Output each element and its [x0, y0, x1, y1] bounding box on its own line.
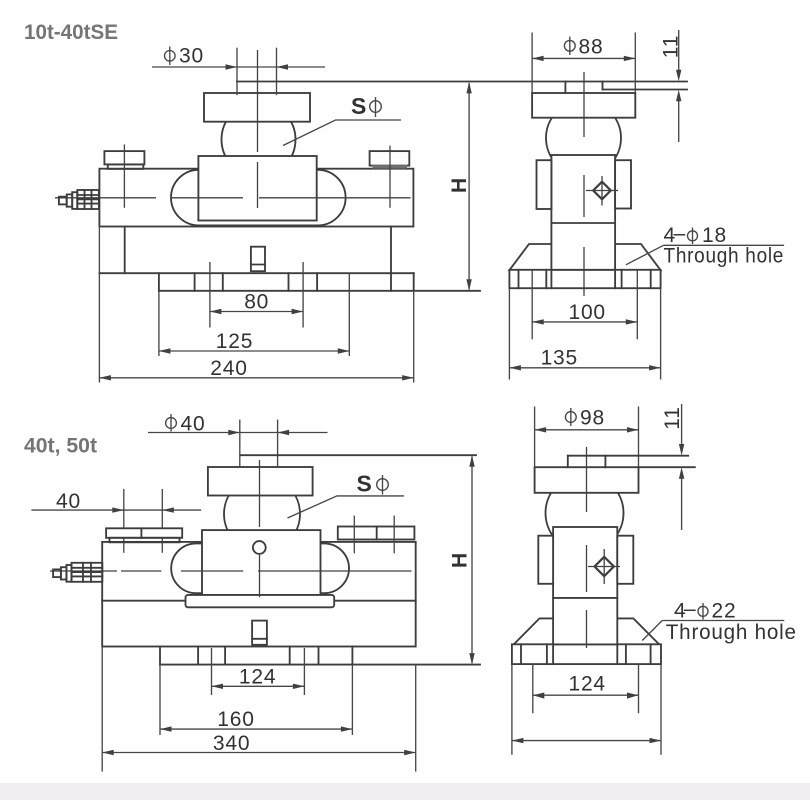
svg-text:124: 124: [568, 673, 605, 696]
svg-text:Through hole: Through hole: [664, 245, 785, 268]
long reference line at stem top (H datum): [237, 81, 687, 83]
dim 240 extension lines: [98, 227, 100, 383]
body mid line: [102, 600, 416, 602]
stem lines (side): [564, 82, 566, 94]
foot hole lines (bottom side): [520, 644, 522, 664]
column joint line (bottom): [553, 597, 617, 599]
svg-text:–: –: [684, 598, 696, 621]
callout 4-phi22 leader: [662, 620, 784, 622]
bottom unlabeled dim ext lines: [511, 664, 513, 755]
foot hole lines (bottom): [197, 647, 199, 665]
svg-text:30: 30: [179, 45, 204, 68]
svg-text:100: 100: [568, 301, 605, 324]
svg-text:Through hole: Through hole: [666, 621, 797, 644]
phi40 dimension line: [148, 432, 328, 434]
S-phi label leader: [283, 120, 401, 146]
section diamond symbol: [593, 182, 611, 200]
side ball (bottom): [546, 474, 624, 552]
callout 4-phi18 leader: [664, 244, 785, 246]
small circle on block: [253, 541, 266, 554]
pedestal trapezoid: [509, 244, 660, 270]
column joint line: [551, 222, 615, 224]
center plug: [251, 247, 265, 272]
svg-text:S: S: [357, 471, 372, 497]
top cap plate: [204, 93, 310, 122]
left bolt seat plate (bottom): [106, 528, 182, 538]
foot hole lines (side): [518, 270, 520, 288]
cable gland tip: [59, 197, 67, 205]
cable gland ring 1: [67, 194, 73, 206]
svg-text:240: 240: [210, 357, 247, 380]
cable gland (bottom) ring1: [61, 567, 67, 579]
cable gland (bottom) ring2: [66, 565, 71, 582]
foot plate (bottom view): [159, 647, 161, 665]
svg-text:S: S: [351, 93, 366, 119]
svg-text:40t, 50t: 40t, 50t: [24, 435, 97, 458]
center plug (bottom): [252, 621, 267, 645]
foot plate (side): [509, 270, 660, 288]
bottom unlabeled dim: [512, 740, 661, 742]
dim 340: [102, 752, 416, 754]
side ball: [546, 101, 621, 176]
svg-text:125: 125: [216, 330, 253, 353]
right bolt lines (bottom): [353, 516, 355, 554]
cable gland (bottom) threaded block: [72, 563, 103, 582]
base upper part: [124, 227, 126, 274]
dim 135 extension lines: [508, 288, 510, 379]
left bolt lines (bottom, dim40 ext): [123, 489, 125, 553]
dim H (bottom row): [471, 457, 473, 664]
svg-text:40: 40: [56, 490, 81, 513]
left tab: [537, 160, 552, 209]
phi30 dimension line: [152, 66, 325, 68]
S-phi leader (bottom): [288, 496, 405, 518]
svg-text:340: 340: [213, 732, 250, 755]
dim 125 extension line right: [348, 274, 350, 357]
svg-text:98: 98: [580, 406, 605, 429]
stem lines (bottom side): [567, 456, 569, 468]
dim 100: [532, 321, 637, 323]
cable gland ring 2: [72, 192, 77, 209]
dim 80: [210, 311, 303, 313]
ears stadium (bottom): [171, 543, 349, 593]
dim 11 (top row): [678, 30, 680, 71]
svg-text:H: H: [449, 552, 472, 568]
dim H (top row): [468, 83, 470, 290]
cap plate (bottom): [208, 467, 313, 496]
reference line at stem top (H datum, bottom row): [241, 454, 477, 456]
dim 40 (left): [31, 509, 201, 511]
dim 125: [159, 350, 349, 352]
center block (bottom): [202, 530, 321, 596]
svg-text:80: 80: [244, 291, 269, 314]
svg-text:–: –: [674, 222, 686, 245]
phi98 ext lines: [534, 407, 536, 471]
dim 11 (bottom row): [681, 404, 683, 445]
left bolt seat spacer: [108, 164, 144, 169]
dim 135: [509, 367, 660, 369]
svg-text:40: 40: [181, 413, 206, 436]
centerline (side view): [583, 72, 585, 137]
stem / button edges (also phi30 extension lines): [236, 48, 238, 95]
svg-text:160: 160: [217, 708, 254, 731]
body housing (front view): [99, 169, 413, 227]
dim 80 extension lines: [209, 262, 211, 328]
right bolt seat plate: [370, 151, 410, 166]
right tab: [615, 160, 631, 208]
right bolt centerline: [389, 146, 391, 208]
vertical centerline (bottom front): [259, 460, 261, 527]
dim 240: [99, 377, 413, 379]
stem edges (phi40 ext lines): [239, 420, 241, 467]
top cap plate (side): [532, 93, 635, 118]
right tab (bottom): [617, 536, 633, 584]
dim 124 ext lines (bottom-right): [532, 664, 534, 713]
svg-text:11: 11: [660, 35, 683, 58]
horizontal centerline through ears (bottom): [50, 570, 117, 572]
foot hole lines: [194, 273, 196, 291]
center block: [198, 156, 316, 221]
vertical centerline of front view: [257, 50, 259, 152]
svg-text:H: H: [448, 177, 471, 193]
left tab (bottom): [538, 536, 553, 584]
svg-text:135: 135: [541, 347, 578, 370]
phi88 dimension: [532, 57, 635, 59]
body housing (bottom front view): [102, 542, 416, 647]
left bolt seat plate: [104, 151, 144, 164]
section diamond (bottom): [595, 557, 614, 576]
bottom gray strip: [0, 783, 810, 800]
cable gland (bottom) tip: [53, 569, 61, 577]
thin plate under block: [186, 595, 335, 607]
left bolt seat spacer (bottom): [110, 538, 180, 543]
dim 124 ext lines (bottom-left view): [211, 648, 213, 695]
phi88 extension lines: [531, 33, 533, 98]
left bolt centerline: [123, 144, 125, 207]
svg-text:124: 124: [239, 666, 276, 689]
right bolt seat plate (bottom): [338, 527, 415, 540]
phi30 text: [165, 51, 176, 62]
ball (bottom): [224, 476, 300, 552]
foot plate (bottom side view): [512, 644, 661, 664]
phi98 dimension: [535, 429, 639, 431]
dim 160 ext lines: [159, 665, 161, 735]
svg-text:11: 11: [661, 406, 684, 429]
ball (load ball): [222, 103, 296, 177]
dim 124 (bottom-right): [533, 694, 639, 696]
dim 100 extension lines: [531, 270, 533, 340]
cap plate (bottom side): [535, 467, 639, 493]
cable gland threaded block: [77, 190, 99, 209]
svg-text:88: 88: [579, 35, 604, 58]
column (bottom): [553, 527, 617, 644]
dim 340 ext lines: [101, 647, 103, 772]
dim 124: [212, 685, 305, 687]
horizontal centerline through ears: [55, 197, 156, 199]
column: [551, 155, 615, 270]
right bolt seat spacer: [373, 165, 408, 169]
pedestal trapezoid (bottom): [514, 618, 660, 644]
svg-text:22: 22: [712, 600, 737, 623]
centerline (bottom side): [586, 447, 588, 512]
dim 160: [160, 728, 352, 730]
ear rounded boss left+right (stadium behind block): [171, 170, 346, 226]
foot plate: [158, 273, 160, 291]
svg-text:10t-40tSE: 10t-40tSE: [24, 21, 118, 44]
